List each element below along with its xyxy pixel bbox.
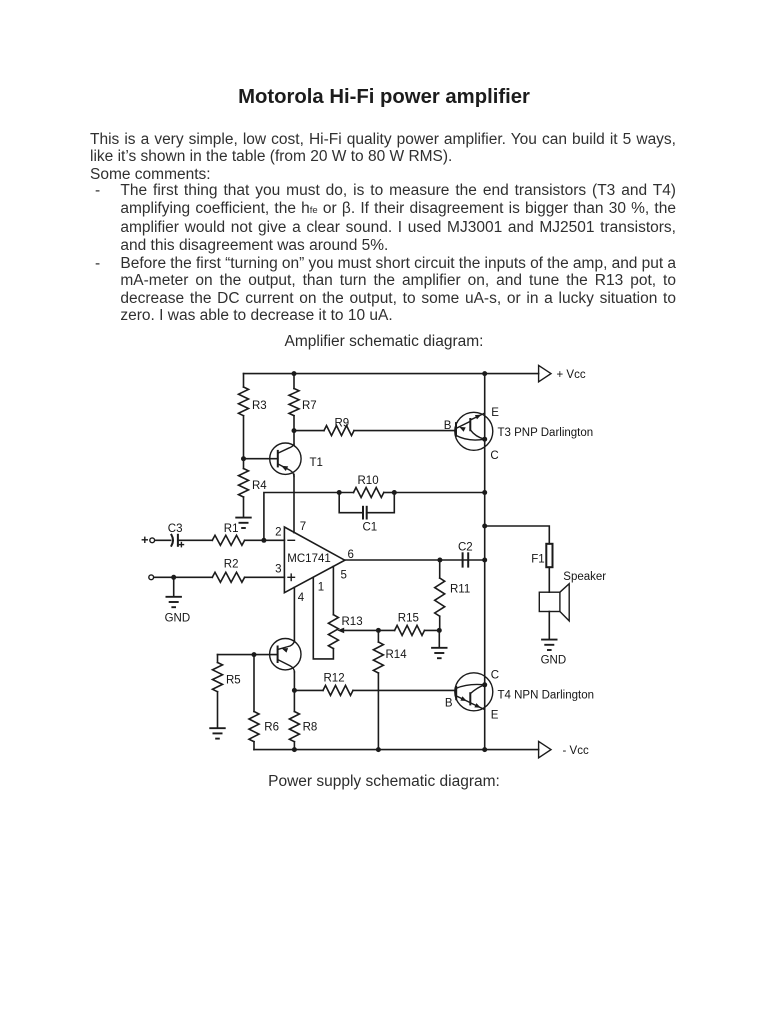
wire T1 emitter to op-amp pin 7 [293, 474, 295, 532]
node bottom rail / R14 [376, 747, 381, 752]
transistor T3 PNP Darlington [455, 412, 493, 450]
capacitor C3 [155, 539, 171, 541]
svg-text:R11: R11 [450, 584, 470, 596]
ground under R11 [438, 630, 440, 647]
svg-text:C: C [490, 450, 498, 462]
svg-text:GND: GND [165, 612, 191, 624]
resistor R10 [339, 492, 353, 494]
op-amp U1 MC1741 [284, 527, 344, 593]
svg-text:R6: R6 [264, 722, 279, 734]
resistor R11 [439, 560, 441, 578]
svg-text:C1: C1 [363, 522, 378, 534]
svg-text:R13: R13 [342, 616, 363, 628]
resistor R15 [395, 625, 425, 635]
node T4 collector join [482, 682, 487, 687]
node R10/C1 left [337, 490, 342, 495]
ground under R4 [235, 517, 251, 519]
input terminal 2 [149, 575, 154, 580]
wire rail to F1 [485, 526, 550, 544]
resistor R4 [243, 459, 245, 469]
svg-text:E: E [491, 407, 499, 419]
power symbol -Vcc [539, 741, 551, 757]
node +rail / C2 junction [482, 558, 487, 563]
resistor R12 [294, 689, 323, 691]
node input2 / ground junction [171, 575, 176, 580]
svg-text:2: 2 [275, 527, 281, 539]
svg-text:R14: R14 [386, 649, 408, 661]
svg-text:T1: T1 [310, 457, 323, 469]
resistor R14 [377, 630, 379, 642]
resistor R6 [253, 655, 255, 712]
node T2 collector / R12 / R8 junction [292, 688, 297, 693]
node top rail / R7 junction [292, 371, 297, 376]
svg-text:+ Vcc: + Vcc [557, 369, 586, 381]
resistor R8 [289, 712, 299, 742]
wire input2 to R2 [154, 576, 213, 578]
resistor R2 [212, 572, 244, 582]
svg-text:E: E [491, 709, 499, 721]
wire F1 to speaker [548, 567, 550, 592]
svg-text:R4: R4 [252, 480, 267, 492]
svg-text:B: B [444, 420, 452, 432]
svg-text:4: 4 [298, 592, 305, 604]
svg-text:B: B [445, 697, 453, 709]
node R11 / R15 junction [437, 628, 442, 633]
node base / R6 junction [252, 652, 257, 657]
wire R10 node to +rail [394, 492, 484, 494]
wire T2 collector down [293, 672, 295, 712]
caption: amplifier schematic [0, 333, 768, 351]
svg-text:R5: R5 [226, 675, 241, 687]
transistor T4 NPN Darlington [455, 673, 493, 711]
resistor R3 [243, 374, 245, 387]
svg-text:C: C [491, 670, 499, 682]
svg-text:F1: F1 [531, 554, 544, 566]
svg-text:5: 5 [341, 570, 347, 582]
svg-text:C2: C2 [458, 541, 473, 553]
svg-text:T4 NPN Darlington: T4 NPN Darlington [498, 689, 595, 701]
ground GND at input [173, 577, 175, 596]
svg-text:R1: R1 [224, 523, 239, 535]
wire pin5 to R13 [332, 566, 334, 614]
svg-text:3: 3 [275, 563, 281, 575]
resistor R1 [212, 535, 244, 545]
node pin2 / R1 / feedback junction [261, 538, 266, 543]
wire bottom rail [254, 749, 539, 751]
wire T2 base [218, 654, 278, 656]
wire speaker to ground [548, 612, 550, 640]
node R13 wiper / R14 / R15 junction [376, 628, 381, 633]
node bottom rail / rail [482, 747, 487, 752]
node output / C2 / R11 junction [437, 558, 442, 563]
resistor R7 [293, 374, 295, 389]
transistor T1 [270, 443, 301, 474]
node +rail / R10 wire junction [482, 490, 487, 495]
node top rail / +Vcc rail junction [482, 371, 487, 376]
bullet list [120, 182, 676, 325]
svg-text:GND: GND [541, 655, 567, 667]
svg-text:R3: R3 [252, 400, 267, 412]
node bottom rail / R8 [292, 747, 297, 752]
node R10/C1 right [392, 490, 397, 495]
node rail/F1 junction [482, 524, 487, 529]
potentiometer R13 [328, 615, 338, 649]
speaker SP [539, 592, 560, 611]
title [0, 85, 768, 109]
resistor R5 [217, 655, 219, 663]
svg-text:R2: R2 [224, 559, 239, 571]
fuse F1 [546, 544, 552, 567]
node R3 / R4 / T1 base junction [241, 456, 246, 461]
ground under R5 [209, 727, 225, 729]
caption: power supply schematic [0, 773, 768, 791]
svg-text:R7: R7 [302, 400, 317, 412]
ground GND under speaker [541, 639, 557, 641]
svg-text:R15: R15 [398, 613, 419, 625]
wire top rail [244, 373, 539, 375]
paragraph 1 [90, 131, 676, 184]
node R7 / R9 / T1 collector junction [292, 428, 297, 433]
input terminal + [142, 539, 147, 541]
svg-text:Speaker: Speaker [563, 571, 606, 583]
capacitor C1 [339, 493, 363, 513]
svg-text:7: 7 [300, 521, 306, 533]
svg-text:- Vcc: - Vcc [563, 745, 589, 757]
svg-text:R12: R12 [324, 672, 345, 684]
svg-text:MC1741: MC1741 [287, 553, 330, 565]
svg-text:R10: R10 [358, 475, 379, 487]
node T3 collector join [482, 437, 487, 442]
capacitor C2 [462, 553, 464, 566]
svg-text:R9: R9 [335, 418, 350, 430]
svg-text:T3 PNP Darlington: T3 PNP Darlington [498, 427, 594, 439]
wire feedback from pin2 node up to R10 [264, 493, 339, 541]
svg-text:1: 1 [318, 581, 324, 593]
svg-text:R8: R8 [303, 722, 318, 734]
wire main right rail [484, 374, 486, 750]
transistor T2 [270, 639, 301, 670]
resistor R9 [294, 430, 324, 432]
wire pin4 to T2 [293, 587, 295, 641]
wire op-amp output pin6 [345, 559, 485, 561]
power symbol +Vcc [539, 365, 551, 381]
wire R13 bottom to pin1 [313, 577, 333, 659]
svg-text:C3: C3 [168, 523, 183, 535]
